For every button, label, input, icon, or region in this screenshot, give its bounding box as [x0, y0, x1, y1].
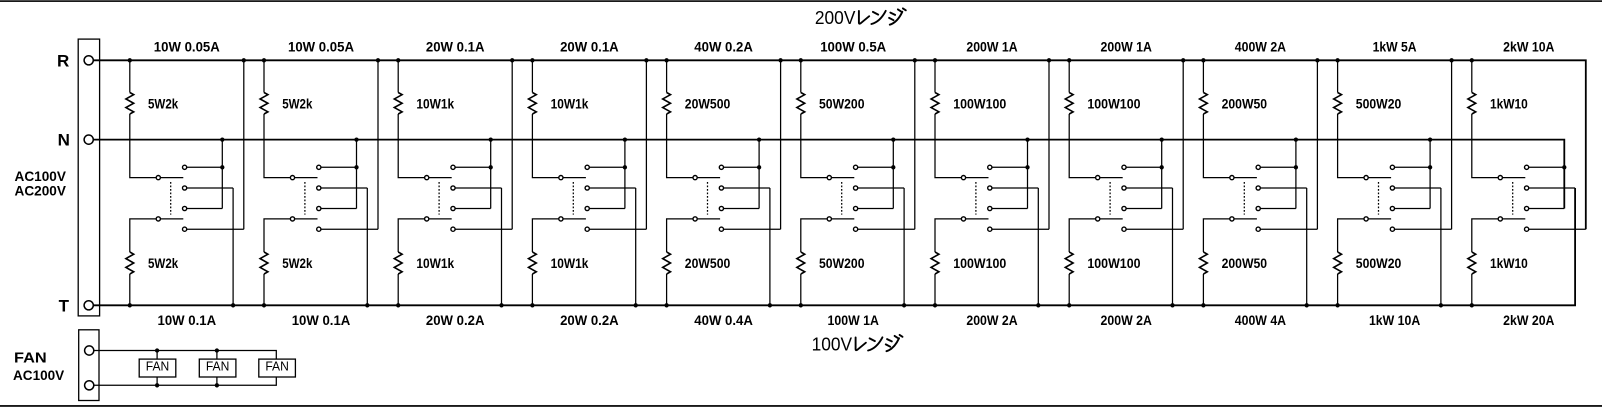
switch S2 throw contact 2: [317, 186, 321, 190]
wire cell7 throw2 to T-branch: [992, 187, 1038, 189]
wire fan supply top: [94, 351, 276, 360]
wire cell3 throw1 to N-branch: [455, 166, 491, 168]
switch S6 pole 2 arm: [831, 218, 854, 220]
wire cell1 throw3 to N-branch: [187, 208, 223, 210]
wire fan stub bottom x157.1: [156, 377, 158, 385]
resistor cell1 lower 5W2k: [126, 252, 134, 274]
switch S5 throw contact 2: [719, 186, 723, 190]
switch S5 throw contact 4: [719, 227, 723, 231]
svg-text:100W100: 100W100: [1087, 95, 1140, 111]
resistor cell10 upper 500W20: [1334, 93, 1342, 115]
switch S2 pole 2: [290, 217, 294, 221]
resistor cell5 lower 20W500: [663, 252, 671, 274]
switch S11 pole 1: [1498, 176, 1502, 180]
wire cell10 throw3 to N-branch: [1395, 208, 1431, 210]
wire cell5 throw4 to R-branch: [724, 228, 781, 230]
svg-text:400W 2A: 400W 2A: [1235, 38, 1286, 54]
svg-text:5W2k: 5W2k: [148, 95, 178, 111]
switch S2 throw contact 4: [317, 227, 321, 231]
switch S7 mechanical link: [975, 182, 977, 215]
svg-text:10W 0.05A: 10W 0.05A: [288, 38, 354, 54]
wire cell3 pole 2 to lower resistor: [398, 219, 424, 252]
resistor cell11 lower 1kW10: [1468, 252, 1476, 274]
wire cell4 throw3 to N-branch: [589, 208, 625, 210]
fan M3: [259, 359, 296, 377]
svg-text:20W 0.2A: 20W 0.2A: [560, 312, 619, 328]
svg-text:1kW10: 1kW10: [1490, 255, 1528, 271]
switch S4 pole 1 arm: [563, 177, 586, 179]
switch S7 pole 1 arm: [966, 177, 989, 179]
wire cell9 R branch vertical (crosses N bus): [1316, 60, 1318, 229]
switch S6 throw contact 1: [854, 165, 858, 169]
switch S1 mechanical link: [170, 182, 172, 215]
resistor cell6 lower 50W200: [797, 252, 805, 274]
switch S11 mechanical link: [1512, 182, 1514, 215]
svg-text:FAN: FAN: [146, 360, 170, 374]
svg-text:200W 1A: 200W 1A: [1101, 38, 1152, 54]
resistor cell1 upper 5W2k: [126, 93, 134, 115]
wire cell9 N branch vertical: [1295, 140, 1297, 209]
resistor cell3 upper 10W1k: [394, 93, 402, 115]
switch S1 throw contact 2: [183, 186, 187, 190]
wire cell10 N branch vertical: [1429, 140, 1431, 209]
wire cell6 throw2 to T-branch: [858, 187, 904, 189]
switch S8 throw contact 1: [1122, 165, 1126, 169]
wire cell11 lower resistor to T bus: [1471, 274, 1473, 305]
wire cell4 throw1 to N-branch: [589, 166, 625, 168]
switch S9 pole 2 arm: [1234, 218, 1257, 220]
resistor cell3 lower 10W1k: [394, 252, 402, 274]
svg-text:500W20: 500W20: [1356, 95, 1402, 111]
svg-text:500W20: 500W20: [1356, 255, 1402, 271]
wire fan supply bottom: [94, 377, 276, 385]
node cell5 T-bus branch junction: [768, 303, 772, 307]
node cell10 T-bus branch junction: [1439, 303, 1443, 307]
wire cell7 lower resistor to T bus: [934, 274, 936, 305]
switch S10 throw contact 1: [1390, 165, 1394, 169]
switch S6 throw contact 4: [854, 227, 858, 231]
switch S8 throw contact 2: [1122, 186, 1126, 190]
node cell11 throw1 junction: [1562, 165, 1566, 169]
switch S3 pole 2 arm: [429, 218, 452, 220]
switch S1 pole 1: [156, 176, 160, 180]
node cell4 N-bus junction: [623, 137, 627, 141]
node cell2 N-bus junction: [354, 137, 358, 141]
wire cell9 R bus to resistor top: [1202, 60, 1204, 92]
wire cell5 lower resistor to T bus: [666, 274, 668, 305]
wire cell6 N branch vertical: [892, 140, 894, 209]
switch S4 pole 2: [559, 217, 563, 221]
wire cell8 N branch vertical: [1161, 140, 1163, 209]
wire cell10 throw4 to R-branch: [1395, 228, 1452, 230]
node cell7 N-bus junction: [1025, 137, 1029, 141]
node fan bottom junction x216.9: [215, 383, 219, 387]
wire cell1 resistor to switch pole1 (crosses N bus): [130, 114, 156, 178]
node cell3 T-bus junction: [396, 303, 400, 307]
switch S1 pole 2 arm: [160, 218, 183, 220]
svg-text:T: T: [59, 296, 70, 315]
switch S9 mechanical link: [1243, 182, 1245, 215]
wire cell2 R bus to resistor top: [263, 60, 265, 92]
switch S4 pole 2 arm: [563, 218, 586, 220]
wire cell4 N branch vertical: [624, 140, 626, 209]
switch S10 pole 1 arm: [1368, 177, 1391, 179]
wire cell6 R bus to resistor top: [800, 60, 802, 92]
switch S10 throw contact 4: [1390, 227, 1394, 231]
wire cell9 throw3 to N-branch: [1260, 208, 1296, 210]
wire cell2 N branch vertical: [356, 140, 358, 209]
wire cell1 R bus to resistor top: [129, 60, 131, 92]
wire cell8 R bus to resistor top: [1068, 60, 1070, 92]
node cell5 T-bus junction: [664, 303, 668, 307]
resistor cell10 lower 500W20: [1334, 252, 1342, 274]
wire cell8 throw3 to N-branch: [1126, 208, 1162, 210]
svg-text:100W 1A: 100W 1A: [828, 312, 879, 328]
switch S7 throw contact 3: [988, 206, 992, 210]
switch S10 throw contact 2: [1390, 186, 1394, 190]
wire cell6 T branch vertical: [903, 188, 905, 305]
resistor cell7 upper 100W100: [931, 93, 939, 115]
node cell2 T-bus junction: [262, 303, 266, 307]
svg-text:10W 0.05A: 10W 0.05A: [154, 38, 220, 54]
switch S8 pole 1 arm: [1100, 177, 1123, 179]
wire cell4 resistor to switch pole1 (crosses N bus): [532, 114, 558, 178]
node cell7 T-bus junction: [933, 303, 937, 307]
wire fan stub top x157.1: [156, 351, 158, 360]
wire cell7 R bus to resistor top: [934, 60, 936, 92]
node cell3 T-bus branch junction: [499, 303, 503, 307]
svg-text:200W 1A: 200W 1A: [966, 38, 1017, 54]
node cell1 R-bus junction: [128, 58, 132, 62]
svg-text:40W 0.2A: 40W 0.2A: [694, 38, 753, 54]
svg-text:50W200: 50W200: [819, 255, 865, 271]
wire cell4 R branch vertical (crosses N bus): [645, 60, 647, 229]
switch S9 throw contact 4: [1256, 227, 1260, 231]
node cell3 throw1 junction: [489, 165, 493, 169]
wire cell8 throw4 to R-branch: [1126, 228, 1183, 230]
switch S11 throw contact 1: [1525, 165, 1529, 169]
wire cell2 throw4 to R-branch: [321, 228, 378, 230]
fan terminal 1: [85, 346, 94, 355]
switch S6 throw contact 2: [854, 186, 858, 190]
node cell8 R-bus junction: [1067, 58, 1071, 62]
svg-text:AC200V: AC200V: [15, 182, 67, 198]
node cell8 T-bus branch junction: [1170, 303, 1174, 307]
node cell10 throw1 junction: [1428, 165, 1432, 169]
svg-text:10W 0.1A: 10W 0.1A: [292, 312, 351, 328]
node cell4 throw1 junction: [623, 165, 627, 169]
node cell8 T-bus junction: [1067, 303, 1071, 307]
node fan top junction x216.9: [215, 348, 219, 352]
wire cell7 throw1 to N-branch: [992, 166, 1028, 168]
wire cell9 throw4 to R-branch: [1260, 228, 1317, 230]
node cell9 T-bus junction: [1201, 303, 1205, 307]
wire cell1 T branch vertical: [232, 188, 234, 305]
switch S10 pole 1: [1364, 176, 1368, 180]
switch S4 mechanical link: [572, 182, 574, 215]
wire cell8 R branch vertical (crosses N bus): [1182, 60, 1184, 229]
wire cell2 throw1 to N-branch: [321, 166, 357, 168]
svg-text:10W1k: 10W1k: [551, 95, 589, 111]
svg-text:5W2k: 5W2k: [282, 255, 312, 271]
switch S7 throw contact 1: [988, 165, 992, 169]
svg-text:10W1k: 10W1k: [551, 255, 589, 271]
wire cell7 R branch vertical (crosses N bus): [1048, 60, 1050, 229]
wire cell11 throw1 to N-branch: [1529, 166, 1565, 168]
wire cell11 throw2 to T-branch: [1529, 187, 1575, 189]
node cell8 throw1 junction: [1160, 165, 1164, 169]
wire cell8 throw2 to T-branch: [1126, 187, 1172, 189]
wire cell11 resistor to switch pole1 (crosses N bus): [1472, 114, 1498, 178]
switch S1 throw contact 4: [183, 227, 187, 231]
svg-text:200W50: 200W50: [1222, 255, 1268, 271]
node cell9 throw1 junction: [1294, 165, 1298, 169]
switch S6 throw contact 3: [854, 206, 858, 210]
wire cell4 T branch vertical: [635, 188, 637, 305]
wire cell9 pole 2 to lower resistor: [1203, 219, 1229, 252]
svg-text:40W 0.4A: 40W 0.4A: [694, 312, 753, 328]
wire cell5 T branch vertical: [769, 188, 771, 305]
wire cell9 resistor to switch pole1 (crosses N bus): [1203, 114, 1229, 178]
svg-text:100V: 100V: [812, 334, 853, 355]
node cell7 throw1 junction: [1025, 165, 1029, 169]
node cell4 T-bus junction: [530, 303, 534, 307]
svg-text:400W 4A: 400W 4A: [1235, 312, 1286, 328]
node cell10 T-bus junction: [1335, 303, 1339, 307]
wire cell2 throw2 to T-branch: [321, 187, 367, 189]
resistor cell8 lower 100W100: [1065, 252, 1073, 274]
switch S9 throw contact 1: [1256, 165, 1260, 169]
wire cell10 throw1 to N-branch: [1395, 166, 1431, 168]
switch S6 mechanical link: [841, 182, 843, 215]
wire cell5 throw3 to N-branch: [724, 208, 760, 210]
wire cell2 resistor to switch pole1 (crosses N bus): [264, 114, 290, 178]
node cell7 R-bus branch junction: [1047, 58, 1051, 62]
wire cell6 lower resistor to T bus: [800, 274, 802, 305]
node cell2 T-bus branch junction: [365, 303, 369, 307]
wire cell9 T branch vertical: [1306, 188, 1308, 305]
switch S1 throw contact 3: [183, 206, 187, 210]
node cell6 throw1 junction: [891, 165, 895, 169]
switch S8 pole 2: [1096, 217, 1100, 221]
wire cell3 T branch vertical: [501, 188, 503, 305]
svg-text:20W500: 20W500: [685, 255, 731, 271]
switch S7 pole 2: [961, 217, 965, 221]
node cell9 T-bus branch junction: [1305, 303, 1309, 307]
svg-text:FAN: FAN: [14, 349, 47, 366]
switch S11 pole 2: [1498, 217, 1502, 221]
wire cell4 throw2 to T-branch: [589, 187, 635, 189]
node cell6 R-bus branch junction: [913, 58, 917, 62]
switch S4 throw contact 2: [585, 186, 589, 190]
switch S2 pole 1: [290, 176, 294, 180]
switch S3 throw contact 4: [451, 227, 455, 231]
switch S3 pole 1 arm: [429, 177, 452, 179]
switch S4 throw contact 3: [585, 206, 589, 210]
wire cell1 lower resistor to T bus: [129, 274, 131, 305]
svg-text:20W500: 20W500: [685, 95, 731, 111]
svg-text:FAN: FAN: [206, 360, 230, 374]
terminal R: [84, 56, 93, 65]
N bus: [93, 140, 1564, 209]
svg-text:1kW 10A: 1kW 10A: [1369, 312, 1420, 328]
node cell6 N-bus junction: [891, 137, 895, 141]
wire cell10 throw2 to T-branch: [1395, 187, 1441, 189]
wire cell3 throw3 to N-branch: [455, 208, 491, 210]
switch S1 pole 1 arm: [160, 177, 183, 179]
wire cell10 resistor to switch pole1 (crosses N bus): [1338, 114, 1364, 178]
switch S9 pole 2: [1230, 217, 1234, 221]
wire fan stub bottom x216.9: [216, 377, 218, 385]
svg-text:100W100: 100W100: [953, 95, 1006, 111]
wire cell6 R branch vertical (crosses N bus): [914, 60, 916, 229]
switch S6 pole 2: [827, 217, 831, 221]
wire cell4 lower resistor to T bus: [531, 274, 533, 305]
switch S5 pole 1 arm: [697, 177, 720, 179]
switch S2 mechanical link: [304, 182, 306, 215]
node cell4 R-bus junction: [530, 58, 534, 62]
R bus: [93, 60, 1586, 229]
wire cell5 throw2 to T-branch: [724, 187, 770, 189]
node cell3 R-bus branch junction: [510, 58, 514, 62]
svg-text:100W100: 100W100: [1087, 255, 1140, 271]
svg-text:200W 2A: 200W 2A: [1101, 312, 1152, 328]
svg-text:10W 0.1A: 10W 0.1A: [158, 312, 217, 328]
switch S8 mechanical link: [1109, 182, 1111, 215]
resistor cell8 upper 100W100: [1065, 93, 1073, 115]
switch S7 pole 2 arm: [966, 218, 989, 220]
switch S2 pole 2 arm: [295, 218, 318, 220]
wire cell4 R bus to resistor top: [531, 60, 533, 92]
switch S11 throw contact 2: [1525, 186, 1529, 190]
wire cell3 R branch vertical (crosses N bus): [511, 60, 513, 229]
svg-text:5W2k: 5W2k: [148, 255, 178, 271]
switch S11 throw contact 3: [1525, 206, 1529, 210]
resistor cell11 upper 1kW10: [1468, 93, 1476, 115]
wire cell7 resistor to switch pole1 (crosses N bus): [935, 114, 961, 178]
node fan bottom junction x157.1: [155, 383, 159, 387]
svg-text:200W50: 200W50: [1222, 95, 1268, 111]
resistor cell5 upper 20W500: [663, 93, 671, 115]
wire cell1 R branch vertical (crosses N bus): [243, 60, 245, 229]
svg-text:100W 0.5A: 100W 0.5A: [820, 38, 886, 54]
node cell5 N-bus junction: [757, 137, 761, 141]
wire cell7 pole 2 to lower resistor: [935, 219, 961, 252]
node cell5 R-bus branch junction: [778, 58, 782, 62]
svg-text:100W100: 100W100: [953, 255, 1006, 271]
fan M1: [139, 359, 176, 377]
svg-text:1kW10: 1kW10: [1490, 95, 1528, 111]
node cell1 T-bus branch junction: [231, 303, 235, 307]
node cell9 R-bus junction: [1201, 58, 1205, 62]
wire cell6 resistor to switch pole1 (crosses N bus): [801, 114, 827, 178]
node cell8 N-bus junction: [1160, 137, 1164, 141]
switch S2 pole 1 arm: [295, 177, 318, 179]
label 100V range katakana renji: [856, 335, 903, 351]
switch S5 throw contact 1: [719, 165, 723, 169]
svg-text:R: R: [57, 51, 69, 70]
wire cell3 R bus to resistor top: [397, 60, 399, 92]
switch S3 throw contact 1: [451, 165, 455, 169]
svg-text:200V: 200V: [815, 7, 856, 28]
node cell1 throw1 junction: [220, 165, 224, 169]
wire cell5 pole 2 to lower resistor: [667, 219, 693, 252]
wire cell5 throw1 to N-branch: [724, 166, 760, 168]
wire cell3 throw2 to T-branch: [455, 187, 501, 189]
resistor cell6 upper 50W200: [797, 93, 805, 115]
switch S5 mechanical link: [707, 182, 709, 215]
terminal block TB1: [78, 39, 99, 316]
wire cell1 throw2 to T-branch: [187, 187, 233, 189]
switch S11 pole 2 arm: [1502, 218, 1525, 220]
node cell1 T-bus junction: [128, 303, 132, 307]
wire cell7 throw3 to N-branch: [992, 208, 1028, 210]
node cell4 T-bus branch junction: [634, 303, 638, 307]
svg-text:N: N: [58, 130, 70, 149]
wire cell1 N branch vertical: [221, 140, 223, 209]
wire cell1 throw4 to R-branch: [187, 228, 244, 230]
node cell11 T-bus junction: [1470, 303, 1474, 307]
svg-text:2kW 20A: 2kW 20A: [1503, 312, 1554, 328]
switch S3 mechanical link: [438, 182, 440, 215]
switch S2 throw contact 3: [317, 206, 321, 210]
switch S4 throw contact 4: [585, 227, 589, 231]
switch S1 throw contact 1: [183, 165, 187, 169]
switch S3 throw contact 2: [451, 186, 455, 190]
switch S9 throw contact 3: [1256, 206, 1260, 210]
svg-text:20W 0.1A: 20W 0.1A: [560, 38, 619, 54]
svg-text:FAN: FAN: [265, 360, 289, 374]
resistor cell4 lower 10W1k: [529, 252, 537, 274]
switch S4 throw contact 1: [585, 165, 589, 169]
wire cell5 R bus to resistor top: [666, 60, 668, 92]
wire cell11 pole 2 to lower resistor: [1472, 219, 1498, 252]
fan M2: [199, 359, 236, 377]
node cell4 R-bus branch junction: [644, 58, 648, 62]
switch S9 pole 1 arm: [1234, 177, 1257, 179]
node cell6 T-bus branch junction: [902, 303, 906, 307]
wire cell1 throw1 to N-branch: [187, 166, 223, 168]
node cell10 R-bus branch junction: [1449, 58, 1453, 62]
switch S8 throw contact 3: [1122, 206, 1126, 210]
wire cell10 R branch vertical (crosses N bus): [1451, 60, 1453, 229]
switch S10 pole 2: [1364, 217, 1368, 221]
switch S8 pole 2 arm: [1100, 218, 1123, 220]
wire cell2 R branch vertical (crosses N bus): [377, 60, 379, 229]
wire cell10 pole 2 to lower resistor: [1338, 219, 1364, 252]
node cell11 R-bus junction: [1470, 58, 1474, 62]
node cell3 R-bus junction: [396, 58, 400, 62]
wire fan stub top x216.9: [216, 351, 218, 360]
resistor cell9 upper 200W50: [1200, 93, 1208, 115]
switch S1 pole 2: [156, 217, 160, 221]
switch S9 pole 1: [1230, 176, 1234, 180]
wire cell7 throw4 to R-branch: [992, 228, 1049, 230]
svg-text:20W 0.2A: 20W 0.2A: [426, 312, 485, 328]
switch S8 pole 1: [1096, 176, 1100, 180]
svg-text:200W 2A: 200W 2A: [966, 312, 1017, 328]
switch S2 throw contact 1: [317, 165, 321, 169]
node cell5 R-bus junction: [664, 58, 668, 62]
node cell8 R-bus branch junction: [1181, 58, 1185, 62]
node cell6 T-bus junction: [799, 303, 803, 307]
wire cell3 throw4 to R-branch: [455, 228, 512, 230]
terminal N: [84, 135, 93, 144]
wire cell2 pole 2 to lower resistor: [264, 219, 290, 252]
wire cell8 lower resistor to T bus: [1068, 274, 1070, 305]
wire cell9 throw2 to T-branch: [1260, 187, 1306, 189]
node cell1 N-bus junction: [220, 137, 224, 141]
